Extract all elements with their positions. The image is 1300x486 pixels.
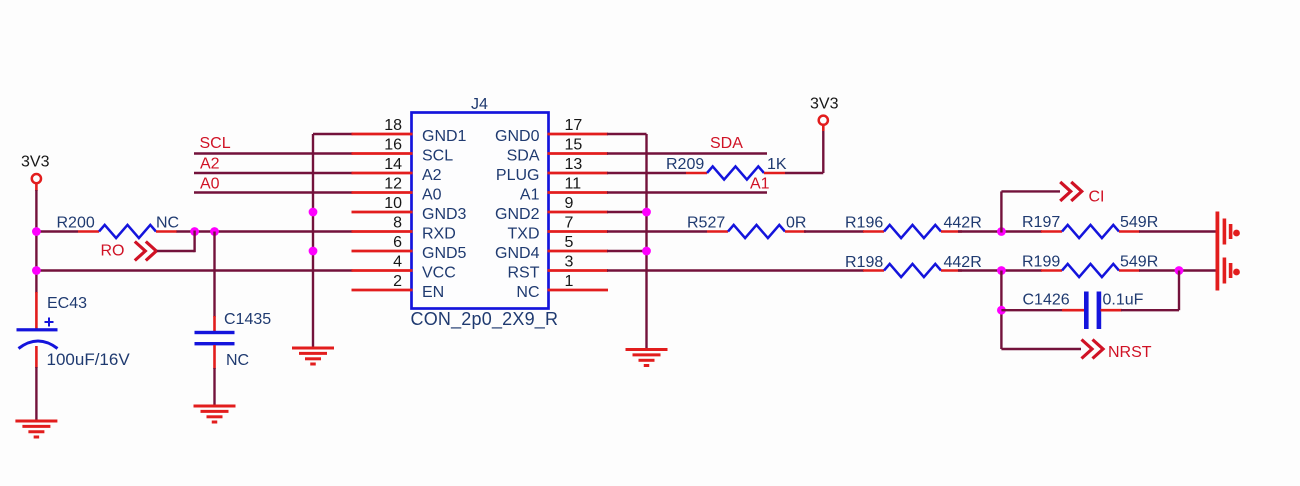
wire junction to C1435 (213, 232, 215, 318)
junction node RO/NC (190, 227, 199, 236)
junction pin6 gnd (309, 247, 318, 256)
svg-text:GND5: GND5 (422, 245, 467, 262)
svg-text:0.1uF: 0.1uF (1103, 292, 1144, 309)
pin 15 (SDA) (507, 137, 608, 165)
svg-text:R196: R196 (845, 215, 883, 232)
svg-text:9: 9 (565, 195, 574, 212)
wire RO to junction (157, 231, 195, 253)
pin 4 (VCC) (352, 254, 456, 282)
junction pin10 gnd (309, 208, 318, 217)
svg-text:0R: 0R (786, 215, 806, 232)
svg-text:EN: EN (422, 284, 444, 301)
ground (RST termination) (1224, 258, 1240, 284)
svg-text:VCC: VCC (422, 265, 456, 282)
svg-text:C1426: C1426 (1023, 292, 1070, 309)
svg-text:R197: R197 (1022, 214, 1060, 231)
svg-text:A0: A0 (200, 176, 220, 193)
svg-text:549R: 549R (1120, 214, 1158, 231)
svg-text:14: 14 (384, 156, 402, 173)
svg-text:A1: A1 (520, 187, 540, 204)
wire 3V3 vertical left (35, 183, 38, 293)
wire pin7 to R527 (607, 230, 707, 232)
resistor R209 (686, 166, 785, 179)
wire gnd bus vertical left (312, 134, 314, 348)
svg-text:A1: A1 (750, 176, 770, 193)
resistor R199 (1041, 264, 1140, 277)
pin 18 (GND1) (352, 117, 467, 145)
svg-text:442R: 442R (944, 215, 982, 232)
junction node NRST left (997, 266, 1006, 275)
wire pin5 to gnd bus (607, 250, 647, 252)
svg-text:R199: R199 (1022, 254, 1060, 271)
resistor R200 (78, 225, 177, 238)
svg-text:PLUG: PLUG (496, 167, 540, 184)
svg-text:R527: R527 (687, 215, 725, 232)
wire pin17 to gnd bus right (607, 133, 647, 135)
svg-text:A0: A0 (422, 187, 442, 204)
ground (left bus) (292, 348, 334, 364)
svg-text:13: 13 (565, 156, 583, 173)
svg-text:18: 18 (384, 117, 402, 134)
port arrow NRST (1082, 340, 1104, 359)
svg-text:17: 17 (565, 117, 583, 134)
wire R196 to R197 (958, 230, 1042, 232)
svg-text:11: 11 (565, 176, 582, 193)
svg-text:GND3: GND3 (422, 206, 467, 223)
wire R197 to gnd (1139, 230, 1216, 232)
wire 3V3 to R200 (36, 230, 78, 232)
pin 9 (GND2) (495, 195, 608, 223)
junction pin9 gnd right (642, 208, 651, 217)
wire junction to CI port (1001, 191, 1060, 232)
resistor R197 (1041, 225, 1140, 238)
wire R198 to R199 (958, 269, 1042, 271)
ground bar (shared long bar) (1216, 212, 1220, 291)
svg-text:10: 10 (384, 195, 402, 212)
wire R200 to pin 8 (177, 230, 353, 232)
svg-text:16: 16 (384, 137, 402, 154)
svg-text:NRST: NRST (1108, 344, 1152, 361)
svg-text:EC43: EC43 (47, 295, 87, 312)
svg-text:R200: R200 (57, 215, 95, 232)
svg-text:2: 2 (393, 273, 402, 290)
pin 14 (A2) (352, 156, 442, 184)
svg-text:5: 5 (565, 234, 574, 251)
resistor R196 (863, 225, 962, 238)
svg-text:100uF/16V: 100uF/16V (47, 350, 131, 369)
svg-text:3: 3 (565, 254, 574, 271)
junction pin5 gnd right (642, 247, 651, 256)
pin 12 (A0) (352, 176, 442, 204)
wire A1 (pin 11) (607, 191, 767, 193)
wire A2 (pin 14) (194, 172, 353, 174)
capacitor C1435 (195, 316, 235, 369)
svg-text:J4: J4 (471, 96, 488, 113)
svg-text:RST: RST (508, 265, 540, 282)
svg-text:7: 7 (565, 215, 574, 232)
wire EC43 to ground (35, 367, 37, 421)
resistor R527 (707, 225, 806, 238)
svg-text:1: 1 (565, 273, 574, 290)
svg-text:CON_2p0_2X9_R: CON_2p0_2X9_R (411, 309, 559, 330)
svg-text:GND0: GND0 (495, 128, 540, 145)
wire A0 (pin 12) (194, 191, 353, 193)
wire SCL (pin 16) (194, 152, 353, 154)
svg-text:15: 15 (565, 137, 583, 154)
ground (C1435) (194, 406, 236, 422)
svg-text:R198: R198 (845, 254, 883, 271)
ground (TXD termination) (1224, 219, 1240, 245)
wire R209 to 3V3 (785, 126, 823, 174)
pin 6 (GND5) (352, 234, 467, 262)
connector J4 box (412, 113, 549, 309)
svg-text:SCL: SCL (200, 135, 231, 152)
pin 11 (A1) (520, 176, 608, 204)
svg-text:4: 4 (393, 254, 402, 271)
capacitor EC43 (17, 292, 58, 368)
wire C1426 right up (1121, 271, 1179, 311)
svg-text:R209: R209 (666, 156, 704, 173)
svg-text:CI: CI (1089, 189, 1105, 206)
wire R527 to R196 (804, 230, 864, 232)
svg-text:TXD: TXD (508, 226, 540, 243)
pin 8 (RXD) (352, 215, 456, 243)
svg-text:RXD: RXD (422, 226, 456, 243)
svg-text:SCL: SCL (422, 148, 453, 165)
svg-text:NC: NC (156, 215, 179, 232)
svg-text:442R: 442R (944, 254, 982, 271)
wire pin13 to R209 (607, 172, 686, 174)
svg-text:3V3: 3V3 (810, 96, 839, 113)
pin 1 (NC) (516, 273, 608, 301)
svg-text:A2: A2 (422, 167, 442, 184)
wire SDA (pin 15) (607, 152, 767, 154)
pin 16 (SCL) (352, 137, 454, 165)
pin 7 (TXD) (508, 215, 609, 243)
svg-text:6: 6 (393, 234, 402, 251)
capacitor C1426 (1062, 292, 1122, 330)
svg-text:SDA: SDA (507, 148, 540, 165)
junction node C1426 right (1175, 266, 1184, 275)
ground (EC43) (15, 421, 57, 437)
ground (right bus) (626, 350, 668, 366)
junction node row8 on 3V3 line (32, 227, 41, 236)
pin 5 (GND4) (495, 234, 608, 262)
svg-text:GND2: GND2 (495, 206, 540, 223)
junction node row4 on 3V3 line (32, 266, 41, 275)
pin 13 (PLUG) (496, 156, 608, 184)
pin 2 (EN) (352, 273, 445, 301)
wire to C1426 left (1001, 309, 1063, 311)
svg-text:RO: RO (101, 243, 125, 260)
svg-text:A2: A2 (200, 156, 220, 173)
svg-text:3V3: 3V3 (21, 154, 50, 171)
svg-text:NC: NC (226, 352, 249, 369)
svg-text:C1435: C1435 (224, 311, 271, 328)
wire R199 to junction right (1139, 269, 1216, 271)
wire junction down to NRST (1001, 271, 1081, 350)
svg-text:GND4: GND4 (495, 245, 540, 262)
svg-text:8: 8 (393, 215, 402, 232)
svg-text:NC: NC (516, 284, 539, 301)
svg-text:12: 12 (384, 176, 402, 193)
port arrow RO (135, 242, 157, 261)
svg-text:SDA: SDA (710, 135, 743, 152)
power circle 3V3 left (32, 174, 41, 183)
resistor R198 (863, 264, 962, 277)
wire C1435 to ground (213, 368, 215, 406)
wire 3V3 to VCC pin 4 (36, 269, 352, 271)
wire pin3 to R198 (607, 269, 864, 271)
svg-text:549R: 549R (1120, 254, 1158, 271)
junction node C1426 left (997, 306, 1006, 315)
port arrow CI (1060, 182, 1082, 201)
junction node C1435 top (210, 227, 219, 236)
pin 10 (GND3) (352, 195, 467, 223)
wire pin9 to gnd bus (607, 211, 647, 213)
wire pin18 to gnd bus (313, 133, 353, 135)
pin 3 (RST) (508, 254, 609, 282)
power circle 3V3 right (819, 116, 828, 125)
svg-text:GND1: GND1 (422, 128, 467, 145)
svg-text:1K: 1K (767, 156, 787, 173)
wire gnd bus vertical right (645, 134, 647, 349)
junction node CI (997, 227, 1006, 236)
pin 17 (GND0) (495, 117, 608, 145)
